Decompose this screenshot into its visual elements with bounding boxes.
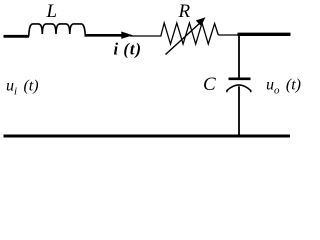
inductor L: [29, 24, 86, 37]
svg-text:uo (t): uo (t): [266, 77, 301, 97]
svg-text:i (t): i (t): [114, 40, 142, 59]
wire arrow to resistor: [130, 35, 162, 37]
svg-text:R: R: [178, 1, 191, 22]
variable-resistor arrowhead: [196, 17, 206, 26]
wire top-left input lead: [4, 35, 30, 38]
node / wire down to capacitor: [238, 34, 240, 78]
svg-text:ui (t): ui (t): [6, 78, 39, 98]
variable-resistor arrow shaft: [166, 23, 201, 55]
capacitor C top plate: [229, 78, 251, 81]
wire resistor to node: [218, 34, 240, 36]
svg-text:L: L: [46, 1, 58, 22]
svg-text:C: C: [203, 74, 216, 95]
wire capacitor to bottom: [238, 86, 240, 136]
wire bottom rail: [4, 135, 291, 138]
wire top-right output lead: [238, 33, 291, 36]
wire with current arrow: [85, 34, 127, 37]
arrowhead i(t): [121, 32, 133, 39]
capacitor C curved plate: [227, 85, 251, 92]
resistor R zigzag: [161, 23, 219, 44]
